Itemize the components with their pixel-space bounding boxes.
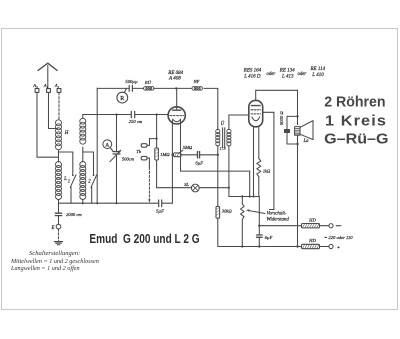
svg-text:A: A [105, 143, 109, 149]
svg-text:1 Kreis: 1 Kreis [325, 114, 387, 130]
svg-text:HD: HD [308, 217, 316, 222]
svg-text:RE 084: RE 084 [167, 71, 183, 76]
svg-text:500cm: 500cm [122, 157, 135, 162]
svg-text:RE 134: RE 134 [279, 68, 295, 73]
svg-text:6µF: 6µF [265, 235, 273, 240]
svg-text:L 416 D: L 416 D [243, 74, 261, 79]
svg-text:oder: oder [298, 72, 307, 77]
svg-text:1kΩ: 1kΩ [263, 168, 271, 173]
svg-text:A 408: A 408 [168, 77, 181, 82]
svg-text:250 cm: 250 cm [129, 119, 143, 124]
svg-text:SL: SL [184, 182, 189, 187]
svg-text:= 220 oder 110: = 220 oder 110 [324, 235, 353, 240]
svg-text:HD: HD [308, 238, 316, 243]
svg-text:A₂: A₂ [43, 83, 49, 88]
svg-text:L 410: L 410 [311, 73, 324, 78]
svg-text:Widerstand: Widerstand [267, 218, 290, 223]
svg-text:A₁: A₁ [54, 83, 60, 88]
svg-text:Mittelwellen = 1 und 2 geschlo: Mittelwellen = 1 und 2 geschlossen [10, 258, 99, 265]
svg-text:G–Rü–G: G–Rü–G [324, 132, 388, 148]
svg-text:L 413: L 413 [281, 74, 294, 79]
svg-text:1:3: 1:3 [220, 146, 227, 151]
svg-text:H: H [64, 131, 69, 136]
svg-text:2000 cm: 2000 cm [66, 212, 82, 217]
svg-text:500µµ: 500µµ [125, 79, 138, 84]
svg-text:9000 Ω: 9000 Ω [279, 111, 284, 125]
svg-text:RÜ: RÜ [144, 80, 152, 85]
svg-text:Langwellen = 1 und 2 offen: Langwellen = 1 und 2 offen [10, 265, 80, 272]
svg-text:A₃: A₃ [32, 83, 38, 88]
svg-text:Ü: Ü [221, 121, 225, 127]
svg-text:RES 164: RES 164 [243, 68, 262, 73]
svg-text:5µF: 5µF [156, 209, 164, 214]
svg-text:+: + [337, 245, 340, 251]
svg-text:30kΩ: 30kΩ [222, 208, 233, 213]
svg-text:R: R [120, 96, 124, 102]
svg-text:5MΩ: 5MΩ [183, 145, 193, 150]
svg-text:E: E [51, 226, 55, 231]
svg-text:Tb: Tb [136, 149, 142, 154]
svg-text:RE 114: RE 114 [310, 67, 326, 72]
svg-text:1MΩ: 1MΩ [160, 152, 170, 157]
svg-text:6µF: 6µF [195, 161, 203, 166]
svg-text:Schalterstellungen:: Schalterstellungen: [29, 250, 80, 257]
svg-text:2 Röhren: 2 Röhren [324, 95, 385, 111]
svg-text:La: La [302, 139, 309, 144]
svg-text:L: L [63, 177, 67, 182]
svg-text:Vorschalt-: Vorschalt- [267, 212, 287, 217]
svg-text:NF: NF [193, 79, 200, 84]
svg-text:Emud G 200 und L 2 G: Emud G 200 und L 2 G [89, 231, 199, 246]
svg-text:oder: oder [267, 72, 276, 77]
svg-text:1: 1 [68, 180, 70, 185]
svg-text:2: 2 [88, 180, 91, 185]
